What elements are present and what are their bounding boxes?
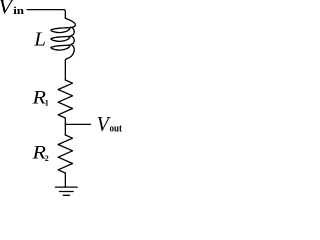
- wire R1 to node: [64, 118, 66, 124]
- resistor R1: [58, 80, 72, 118]
- svg-text:L: L: [33, 29, 46, 51]
- node Vout stub wire: [65, 123, 90, 125]
- svg-text:2: 2: [45, 154, 49, 163]
- wire R2 to ground: [64, 173, 66, 187]
- wire node to R2: [64, 124, 66, 135]
- inductor L: [51, 18, 75, 60]
- wire Vin to corner: [27, 10, 65, 19]
- ground: [55, 186, 77, 188]
- svg-text:out: out: [110, 123, 123, 135]
- svg-text:in: in: [13, 5, 24, 16]
- svg-text:1: 1: [45, 99, 49, 108]
- wire coil to R1: [64, 60, 66, 80]
- resistor R2: [58, 135, 72, 173]
